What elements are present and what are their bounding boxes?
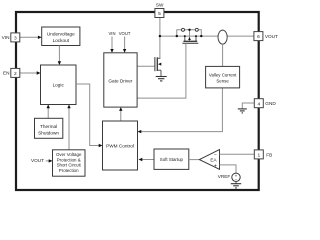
svg-text:2: 2 (14, 71, 17, 77)
svg-text:VIN: VIN (109, 31, 116, 36)
svg-text:FB: FB (266, 152, 272, 157)
IC package outline (16, 12, 259, 190)
wire Thermal Shutdown to Logic (47, 106, 49, 119)
pin 5 SW (155, 3, 164, 18)
wire gate riser Q1 to gate driver (137, 43, 186, 98)
wire FB pin to EA inverting input (220, 153, 255, 155)
block U7 Valley Current Sense (206, 66, 240, 88)
svg-text:VIN: VIN (2, 35, 10, 40)
svg-text:4: 4 (257, 101, 260, 107)
svg-text:VOUT: VOUT (265, 34, 278, 39)
svg-text:Valley Current: Valley Current (209, 72, 237, 77)
block U5 Gate Driver (104, 53, 137, 107)
svg-text:6: 6 (257, 34, 260, 40)
pin 3 VIN (2, 33, 20, 42)
svg-text:EN: EN (3, 71, 10, 76)
wire pin VIN to UVLO (20, 36, 41, 38)
transistor Q1 high-side PMOS body (182, 36, 198, 43)
svg-text:Soft Startup: Soft Startup (160, 157, 184, 162)
svg-text:VOUT: VOUT (31, 158, 44, 163)
wire pin EN to Logic (20, 72, 40, 74)
block U6 PWM Control (103, 121, 138, 170)
wire VIN into gate driver (111, 37, 113, 52)
ground below VREF (231, 184, 241, 188)
pin 4 GND (254, 99, 276, 108)
op-amp EA (199, 150, 219, 170)
wire EA to soft startup (189, 159, 200, 161)
block U3 Thermal Shutdown (35, 118, 63, 138)
block U4 Over Voltage Protection (53, 150, 86, 176)
wire VREF to ground (235, 182, 237, 184)
svg-text:1: 1 (257, 153, 260, 159)
pin 2 EN (3, 68, 20, 77)
wire gate driver to Q2 gate (137, 65, 154, 67)
svg-text:Gate Driver: Gate Driver (108, 79, 132, 84)
ground at GND pin (238, 109, 247, 113)
wire VOUT into gate driver (124, 37, 126, 52)
wire OVP to Logic (68, 106, 70, 150)
pin 1 FB (254, 150, 272, 159)
svg-text:Protection &: Protection & (57, 157, 81, 162)
svg-text:Logic: Logic (53, 83, 65, 88)
wire VREF to EA non-inverting input (220, 165, 237, 173)
wire Logic to PWM control (76, 84, 101, 146)
svg-text:Shutdown: Shutdown (38, 130, 59, 135)
wire UVLO to Logic (58, 46, 60, 64)
transistor Q2 low-side NMOS (155, 57, 161, 76)
svg-text:Lockout: Lockout (53, 38, 70, 43)
svg-text:3: 3 (14, 36, 17, 42)
wire valley current sense to PWM control (139, 88, 223, 132)
svg-text:VREF: VREF (218, 174, 231, 179)
current sense element (ellipse) (218, 30, 227, 44)
svg-text:Short Circuit: Short Circuit (57, 163, 82, 168)
wire bulk-switch bubble path (177, 30, 202, 42)
svg-text:VOUT: VOUT (119, 31, 131, 36)
node junction dots on SW rail (159, 35, 203, 37)
svg-text:Protection: Protection (59, 168, 79, 173)
wire VOUT label to OVP (46, 160, 52, 162)
svg-text:GND: GND (265, 101, 276, 106)
ground below Q2 (156, 77, 167, 81)
voltage source VREF (218, 173, 240, 183)
block U1 Undervoltage Lockout (42, 27, 80, 46)
wire soft startup to PWM control (140, 159, 154, 161)
svg-text:+: + (214, 163, 217, 169)
wire ellipse to valley current sense block (222, 44, 224, 66)
pin 6 VOUT (254, 32, 278, 41)
block U2 Logic (41, 65, 77, 105)
transistor Q1 high-side (bulk bubbles) (182, 28, 199, 31)
svg-text:Sense: Sense (216, 79, 229, 84)
block U8 Soft Startup (154, 149, 189, 169)
wire PWM control to gate driver (120, 108, 122, 121)
svg-text:SW: SW (156, 3, 164, 8)
wire SW net: pin5 down + main rail to VOUT (160, 18, 254, 59)
svg-text:Undervoltage: Undervoltage (47, 32, 75, 37)
svg-text:−: − (214, 153, 217, 159)
svg-text:5: 5 (158, 11, 161, 17)
svg-text:Over Voltage: Over Voltage (56, 152, 82, 157)
wire GND pin to ground (242, 103, 254, 109)
svg-text:Thermal: Thermal (40, 124, 57, 129)
svg-text:PWM Control: PWM Control (106, 143, 134, 148)
